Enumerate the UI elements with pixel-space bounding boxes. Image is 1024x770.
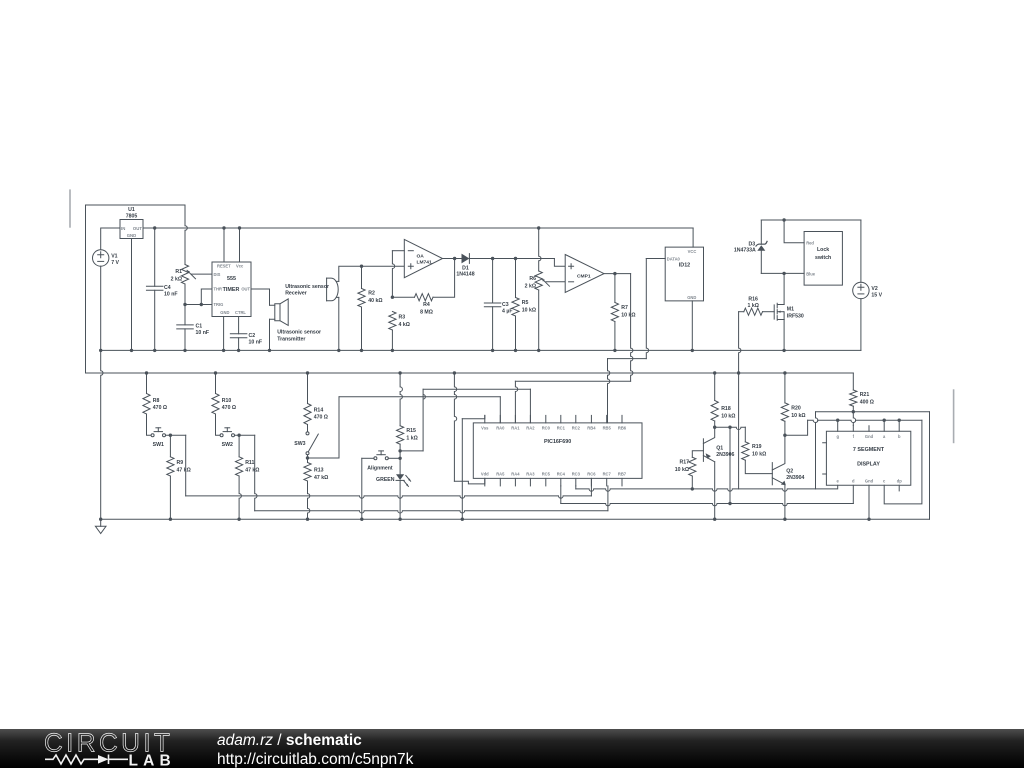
svg-text:Blue: Blue xyxy=(806,272,816,277)
wire xyxy=(339,266,405,281)
wire SW3 route xyxy=(308,397,340,458)
svg-text:RB4: RB4 xyxy=(587,425,596,430)
svg-text:Gnd: Gnd xyxy=(865,434,874,439)
wire xyxy=(739,312,741,489)
voltage source V2 xyxy=(853,282,869,298)
wire xyxy=(760,220,762,244)
svg-text:R15: R15 xyxy=(406,428,416,434)
wire Vss xyxy=(462,415,485,418)
svg-text:R10: R10 xyxy=(222,398,232,404)
svg-text:IRF530: IRF530 xyxy=(787,313,804,319)
node xyxy=(883,419,886,422)
svg-text:PIC16F690: PIC16F690 xyxy=(544,439,571,445)
node xyxy=(491,349,494,352)
svg-text:RB6: RB6 xyxy=(618,425,627,430)
op-amp OA LM741 xyxy=(404,239,442,277)
svg-text:DATA0: DATA0 xyxy=(667,256,681,261)
svg-text:DISPLAY: DISPLAY xyxy=(857,461,880,467)
node xyxy=(306,518,309,521)
svg-text:10 nF: 10 nF xyxy=(249,340,263,346)
speaker ultrasonic transmitter xyxy=(270,305,275,319)
resistor R11 xyxy=(236,457,243,476)
wire xyxy=(154,228,156,286)
wire xyxy=(515,381,517,423)
wire xyxy=(691,476,693,489)
wire xyxy=(238,338,240,351)
switch SW3 xyxy=(306,432,309,435)
node xyxy=(398,371,401,374)
wire feedback xyxy=(392,296,414,298)
svg-text:SW1: SW1 xyxy=(153,442,164,448)
node xyxy=(183,349,186,352)
zener diode D3 1N4733A xyxy=(756,241,768,247)
wire xyxy=(852,406,854,412)
svg-text:f: f xyxy=(853,434,855,439)
ground xyxy=(95,526,106,533)
capacitor C1 xyxy=(177,324,194,326)
wire to RA0 xyxy=(339,396,500,398)
svg-text:RC3: RC3 xyxy=(572,471,581,476)
wire xyxy=(454,478,484,484)
wire Vdd xyxy=(454,373,456,481)
svg-text:RC0: RC0 xyxy=(542,425,551,430)
wire xyxy=(608,358,647,360)
node xyxy=(398,449,401,452)
node xyxy=(306,456,309,459)
svg-text:c: c xyxy=(883,479,886,484)
svg-text:2 kΩ: 2 kΩ xyxy=(171,277,182,283)
wire xyxy=(816,412,818,489)
node xyxy=(782,349,785,352)
wire row SW1-RC6 xyxy=(186,496,592,498)
svg-text:THR: THR xyxy=(214,287,222,292)
stray mark xyxy=(953,389,955,443)
resistor R4 xyxy=(415,294,434,301)
resistor R10 xyxy=(212,394,219,415)
node xyxy=(783,518,786,521)
svg-text:VCC: VCC xyxy=(688,249,697,254)
svg-text:R1: R1 xyxy=(175,269,182,275)
wire xyxy=(929,412,931,520)
svg-text:RA5: RA5 xyxy=(496,471,505,476)
7 segment display box xyxy=(826,431,910,485)
wire xyxy=(307,425,309,432)
svg-text:TRIG: TRIG xyxy=(214,302,224,307)
wire xyxy=(469,258,554,260)
svg-text:RC7: RC7 xyxy=(603,471,612,476)
svg-text:RB7: RB7 xyxy=(618,471,627,476)
wire xyxy=(388,457,400,459)
wire xyxy=(604,273,631,275)
node xyxy=(728,426,731,429)
wire xyxy=(739,311,744,313)
wire xyxy=(184,305,186,325)
wire CTRL xyxy=(238,317,240,334)
wire xyxy=(499,397,501,423)
wire xyxy=(184,329,186,351)
transistor Q1 2N3906 xyxy=(702,439,704,462)
resistor R9 xyxy=(167,457,174,476)
svg-text:V1: V1 xyxy=(111,254,117,260)
svg-text:Vss: Vss xyxy=(481,425,489,430)
wire rail xyxy=(86,372,854,374)
wire xyxy=(744,427,746,442)
node xyxy=(898,419,901,422)
node xyxy=(782,272,785,275)
svg-text:R9: R9 xyxy=(177,460,184,466)
resistor R14 xyxy=(304,404,311,425)
wire xyxy=(784,220,804,243)
wire xyxy=(590,478,592,496)
svg-text:555: 555 xyxy=(227,276,236,282)
RFID reader ID12 xyxy=(665,247,703,301)
svg-text:ID12: ID12 xyxy=(679,263,690,269)
svg-text:Receiver: Receiver xyxy=(285,291,307,297)
mosfet M1 IRF530 xyxy=(777,303,784,308)
wire row RC3 xyxy=(575,486,577,489)
wire xyxy=(166,434,186,436)
wire xyxy=(853,425,869,431)
svg-text:R16: R16 xyxy=(748,297,758,303)
wire xyxy=(783,320,785,351)
svg-text:47 kΩ: 47 kΩ xyxy=(314,475,328,481)
wire R15 route xyxy=(400,450,423,452)
node xyxy=(398,457,401,460)
wire xyxy=(238,435,240,457)
wire xyxy=(251,289,270,305)
wire xyxy=(860,299,862,351)
svg-text:4 µF: 4 µF xyxy=(502,308,512,314)
svg-text:D1: D1 xyxy=(462,265,469,271)
wire xyxy=(400,373,402,426)
wire xyxy=(529,389,531,423)
svg-text:10 kΩ: 10 kΩ xyxy=(791,413,805,419)
svg-text:LAB: LAB xyxy=(129,753,176,770)
wire xyxy=(692,228,694,247)
node xyxy=(713,518,716,521)
svg-text:7805: 7805 xyxy=(126,214,138,220)
svg-text:R17: R17 xyxy=(679,460,689,466)
svg-text:a: a xyxy=(883,434,886,439)
wire bottom rail xyxy=(101,518,930,520)
node xyxy=(737,371,740,374)
svg-text:SW3: SW3 xyxy=(294,441,305,447)
svg-text:CMP1: CMP1 xyxy=(577,274,591,280)
node xyxy=(691,349,694,352)
wire xyxy=(239,476,241,519)
svg-text:RC6: RC6 xyxy=(587,471,596,476)
wire xyxy=(761,219,861,221)
node xyxy=(237,434,240,437)
wire xyxy=(101,350,103,519)
svg-text:R2: R2 xyxy=(368,291,375,297)
node xyxy=(237,349,240,352)
wire xyxy=(860,220,862,282)
wire xyxy=(361,458,363,519)
svg-text:7 SEGMENT: 7 SEGMENT xyxy=(853,447,885,453)
svg-text:RA3: RA3 xyxy=(526,471,535,476)
node xyxy=(238,226,241,229)
svg-text:R13: R13 xyxy=(314,468,324,474)
wire xyxy=(784,421,786,435)
node xyxy=(222,226,225,229)
wire DATA0 xyxy=(646,258,665,260)
node xyxy=(461,518,464,521)
footer author line xyxy=(217,732,362,750)
svg-text:RA4: RA4 xyxy=(511,471,520,476)
resistor R21 xyxy=(850,390,857,406)
wire xyxy=(361,307,363,350)
svg-text:R5: R5 xyxy=(522,300,529,306)
node xyxy=(713,426,716,429)
regulator U1 7805 xyxy=(120,220,143,239)
svg-text:470 Ω: 470 Ω xyxy=(314,415,328,421)
wire 555 GND xyxy=(223,317,225,351)
svg-text:RA0: RA0 xyxy=(496,425,505,430)
svg-text:DIS: DIS xyxy=(214,272,221,277)
transistor Q2 2N3904 xyxy=(771,463,773,485)
wire xyxy=(692,451,703,457)
resistor R1 xyxy=(181,265,188,285)
node xyxy=(153,226,156,229)
svg-text:GND: GND xyxy=(687,295,696,300)
node xyxy=(360,265,363,268)
svg-text:47 kΩ: 47 kΩ xyxy=(245,467,259,473)
svg-text:R21: R21 xyxy=(860,392,870,398)
wire RESET xyxy=(223,228,225,262)
wire xyxy=(539,228,541,271)
wire ground rail xyxy=(101,349,861,351)
svg-text:1 kΩ: 1 kΩ xyxy=(748,303,759,309)
svg-text:TIMER: TIMER xyxy=(223,287,240,293)
node xyxy=(169,434,172,437)
wire xyxy=(515,380,630,382)
svg-text:10 kΩ: 10 kΩ xyxy=(621,313,635,319)
wire xyxy=(433,259,455,298)
svg-text:RESET: RESET xyxy=(217,263,231,268)
wire xyxy=(783,273,785,304)
wire to RA2 xyxy=(423,388,530,390)
resistor R8 xyxy=(143,394,150,415)
wire xyxy=(169,476,171,519)
svg-text:10 kΩ: 10 kΩ xyxy=(522,307,536,313)
wire xyxy=(784,373,786,403)
svg-text:dp: dp xyxy=(897,479,903,484)
wire xyxy=(235,434,255,436)
node xyxy=(391,349,394,352)
wire xyxy=(185,205,187,265)
wire xyxy=(307,455,309,463)
node xyxy=(491,257,494,260)
svg-text:C1: C1 xyxy=(196,324,203,330)
stray mark xyxy=(69,189,71,227)
resistor R3 xyxy=(389,312,396,331)
resistor R16 xyxy=(744,308,763,315)
wire xyxy=(715,427,746,429)
svg-text:g: g xyxy=(836,434,839,439)
wire xyxy=(391,330,393,350)
logo resistor and diode art xyxy=(45,755,98,764)
wire xyxy=(515,316,517,350)
svg-text:R11: R11 xyxy=(245,460,254,466)
svg-text:Transmitter: Transmitter xyxy=(277,337,305,343)
capacitor C4 xyxy=(146,285,163,287)
svg-text:R14: R14 xyxy=(314,408,324,414)
LED GREEN xyxy=(396,474,404,480)
pushbutton SW2 xyxy=(220,434,223,437)
wire xyxy=(838,420,900,431)
resistor R13 xyxy=(304,463,311,482)
svg-text:R7: R7 xyxy=(621,305,628,311)
svg-text:R20: R20 xyxy=(791,405,801,411)
microcontroller PIC16F690 xyxy=(473,423,642,479)
svg-text:Q2: Q2 xyxy=(786,469,793,475)
svg-text:2 kΩ: 2 kΩ xyxy=(525,283,536,289)
wire xyxy=(131,239,133,351)
wire xyxy=(631,274,633,382)
wire pin c xyxy=(884,420,922,504)
wire TRIG xyxy=(185,304,212,306)
svg-text:LM741: LM741 xyxy=(417,259,433,265)
wire Vcc xyxy=(239,228,241,262)
svg-text:10 nF: 10 nF xyxy=(164,292,178,298)
node xyxy=(514,257,517,260)
wire +V rail xyxy=(143,227,693,229)
capacitor C3 xyxy=(484,302,501,304)
node xyxy=(214,371,217,374)
wire xyxy=(761,272,804,274)
resistor R17 xyxy=(689,457,696,476)
node xyxy=(453,257,456,260)
svg-text:Vcc: Vcc xyxy=(236,263,244,268)
svg-text:RC5: RC5 xyxy=(542,471,551,476)
wire xyxy=(361,266,363,288)
wire xyxy=(443,258,462,260)
wire xyxy=(515,259,517,298)
wire line Q xyxy=(808,420,922,422)
svg-text:2N3906: 2N3906 xyxy=(716,452,734,458)
wire xyxy=(101,228,120,250)
svg-text:8 MΩ: 8 MΩ xyxy=(420,309,433,315)
wire row RC4 xyxy=(560,486,562,504)
node xyxy=(268,349,271,352)
node xyxy=(360,349,363,352)
wire pin Gnd xyxy=(868,485,870,519)
node xyxy=(99,518,102,521)
wire pin d xyxy=(852,485,854,503)
svg-text:IN: IN xyxy=(121,226,125,231)
svg-text:47 kΩ: 47 kΩ xyxy=(177,467,191,473)
wire SW1 route xyxy=(185,435,187,496)
node xyxy=(391,296,394,299)
wire xyxy=(784,484,786,519)
svg-text:OUT: OUT xyxy=(241,287,250,292)
svg-text:R19: R19 xyxy=(752,444,762,450)
svg-text:U1: U1 xyxy=(128,207,135,213)
wire xyxy=(492,259,494,304)
node xyxy=(306,371,309,374)
wire xyxy=(85,205,87,373)
wire ID12 GND xyxy=(691,301,693,351)
resistor R20 xyxy=(781,403,788,422)
svg-text:V2: V2 xyxy=(871,286,877,292)
wire xyxy=(492,307,494,351)
node xyxy=(836,419,839,422)
node xyxy=(222,349,225,352)
wire xyxy=(100,266,102,350)
wire xyxy=(215,373,217,394)
node xyxy=(200,303,203,306)
wire xyxy=(646,259,648,359)
wire xyxy=(607,486,609,511)
wire xyxy=(714,421,716,427)
wire xyxy=(338,297,340,350)
svg-text:Ultrasonic sensor: Ultrasonic sensor xyxy=(285,284,329,290)
wire row SW2-RC7 xyxy=(255,511,608,513)
node xyxy=(145,371,148,374)
svg-text:R6: R6 xyxy=(529,276,536,282)
svg-text:GND: GND xyxy=(127,233,137,238)
footer url line xyxy=(217,751,413,769)
svg-text:Vdd: Vdd xyxy=(481,471,489,476)
microphone ultrasonic receiver xyxy=(326,278,328,301)
resistor R19 xyxy=(742,442,749,460)
svg-text:RA1: RA1 xyxy=(511,425,520,430)
wire xyxy=(614,322,616,351)
svg-text:470 Ω: 470 Ω xyxy=(222,405,236,411)
wire xyxy=(399,458,401,474)
svg-text:RC4: RC4 xyxy=(557,471,566,476)
svg-text:switch: switch xyxy=(815,255,831,261)
wire xyxy=(216,414,221,435)
svg-text:R8: R8 xyxy=(153,398,160,404)
svg-text:e: e xyxy=(837,479,840,484)
wire xyxy=(399,444,401,458)
wire xyxy=(608,359,610,423)
wire xyxy=(146,373,148,394)
node xyxy=(237,518,240,521)
wire xyxy=(154,290,156,350)
node xyxy=(99,349,102,352)
node xyxy=(360,518,363,521)
wire xyxy=(816,485,838,489)
wire xyxy=(538,290,540,350)
svg-text:C4: C4 xyxy=(164,285,171,291)
svg-text:C3: C3 xyxy=(502,302,509,308)
wire xyxy=(169,435,171,457)
node xyxy=(514,349,517,352)
svg-text:GREEN: GREEN xyxy=(376,477,395,483)
wire line P xyxy=(816,411,930,413)
wire pin dp xyxy=(898,485,900,491)
svg-text:C2: C2 xyxy=(249,333,256,339)
wire xyxy=(614,274,616,303)
node xyxy=(169,518,172,521)
pushbutton SW1 xyxy=(151,434,154,437)
node xyxy=(783,371,786,374)
pushbutton Alignment xyxy=(374,457,377,460)
wire xyxy=(100,519,102,526)
svg-text:1N4733A: 1N4733A xyxy=(734,248,756,254)
svg-text:Alignment: Alignment xyxy=(367,465,393,471)
node xyxy=(153,349,156,352)
wire xyxy=(147,414,152,435)
wire xyxy=(554,259,565,267)
svg-text:10 nF: 10 nF xyxy=(196,330,210,336)
svg-text:R4: R4 xyxy=(423,302,430,308)
svg-text:R18: R18 xyxy=(721,406,731,412)
wire xyxy=(745,460,772,473)
